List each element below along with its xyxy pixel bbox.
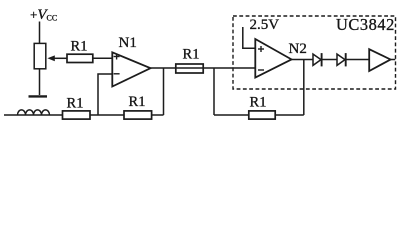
resistor R1 (wiper series) [67, 54, 93, 62]
buffer amplifier [369, 49, 390, 71]
diode D2 [337, 53, 346, 66]
svg-text:N1: N1 [119, 35, 137, 51]
svg-text:R1: R1 [67, 96, 84, 112]
ground [29, 95, 48, 97]
svg-text:2.5V: 2.5V [250, 17, 280, 33]
wire feedback junction down [163, 68, 165, 115]
svg-text:N2: N2 [289, 41, 307, 57]
wire N2 output [292, 59, 314, 61]
label +Vcc [30, 7, 57, 23]
wire buffer output [391, 59, 396, 61]
inductor L [18, 110, 50, 115]
wire N1 output [151, 67, 256, 69]
svg-text:R1: R1 [129, 94, 146, 110]
wiper arrow [47, 55, 67, 61]
label 2.5V [250, 17, 280, 33]
resistor R1 (N2 feedback) [249, 111, 275, 119]
wire N1 inverting input [98, 74, 112, 115]
wire potentiometer to ground [39, 69, 41, 95]
resistor R1 (between N1 and N2) [176, 64, 203, 73]
potentiometer body [34, 43, 46, 68]
wire to junction node [90, 114, 124, 116]
wire N2 feedback bottom left [214, 114, 248, 116]
wire Vcc to potentiometer [39, 22, 41, 44]
wire junction to N2 feedback [213, 68, 215, 115]
resistor R1 (input to N1 inverting) [63, 111, 91, 119]
svg-text:R1: R1 [183, 47, 200, 63]
op-amp N1 [112, 52, 150, 86]
wire N2 output feedback down [303, 60, 305, 116]
wire feedback resistor to output junction [152, 114, 164, 116]
svg-text:R1: R1 [250, 95, 267, 111]
dashed box UC3842 [233, 16, 396, 89]
svg-text:R1: R1 [71, 39, 88, 55]
resistor R1 (N1 feedback) [124, 111, 152, 119]
wire feedback to output node [276, 114, 304, 116]
wire D2 to buffer [346, 59, 370, 61]
wire 2.5V reference to N2 + input [243, 27, 256, 48]
diode D1 [313, 53, 322, 66]
bottom-left rail wire [4, 114, 63, 116]
svg-text:UC3842: UC3842 [336, 15, 395, 34]
op-amp N2 [255, 39, 291, 78]
wire D1 to D2 [322, 59, 337, 61]
wire R1 to N1 + input [93, 57, 112, 59]
